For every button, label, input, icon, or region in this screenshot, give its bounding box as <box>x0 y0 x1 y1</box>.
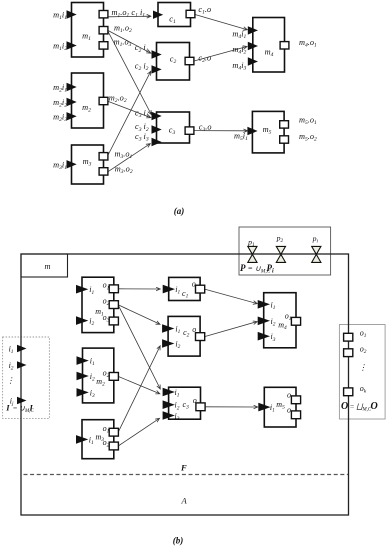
svg-text:I: I <box>29 402 34 412</box>
svg-text:⋮: ⋮ <box>359 363 367 372</box>
svg-text:(b): (b) <box>173 536 184 546</box>
svg-text:o1​: o1​ <box>360 328 367 339</box>
svg-text:I: I <box>5 402 10 412</box>
svg-text:o: o <box>287 390 291 399</box>
svg-text:ok​: ok​ <box>360 384 367 395</box>
svg-text:o: o <box>287 406 291 415</box>
svg-text:⋮: ⋮ <box>7 376 15 385</box>
svg-text:c3​.o: c3​.o <box>199 122 212 133</box>
svg-text:o: o <box>192 279 196 288</box>
svg-text:o2​: o2​ <box>360 344 367 355</box>
svg-text:F: F <box>180 463 187 473</box>
svg-text:O: O <box>371 401 378 412</box>
svg-text:m​: m​ <box>45 262 51 271</box>
svg-text:o2​: o2​ <box>103 368 110 379</box>
svg-text:(a): (a) <box>174 206 185 216</box>
svg-text:O: O <box>341 401 348 412</box>
svg-text:o: o <box>192 325 196 334</box>
svg-text:o: o <box>193 396 197 405</box>
svg-text:P: P <box>240 263 246 273</box>
svg-text:A: A <box>181 496 188 506</box>
